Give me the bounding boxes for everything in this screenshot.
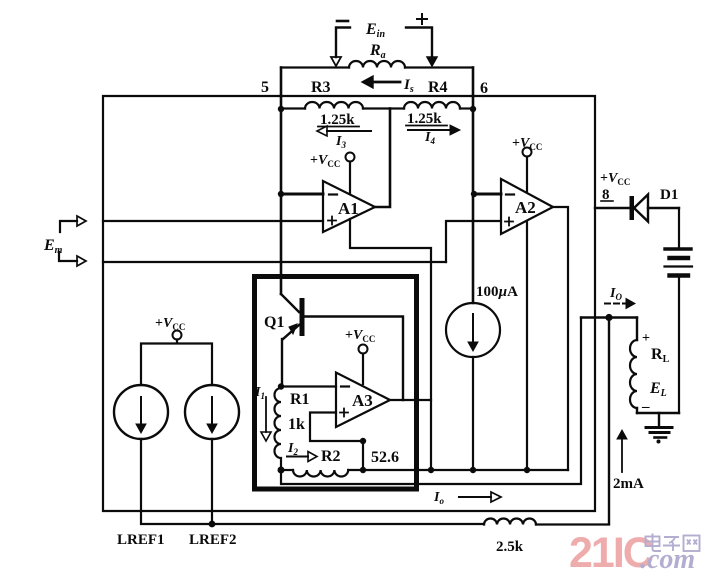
svg-text:EL: EL <box>649 380 667 399</box>
svg-text:.com: .com <box>640 544 695 575</box>
svg-text:I1: I1 <box>254 385 265 401</box>
wire Io node horizontal <box>581 316 637 318</box>
wire A1 inverting input from node 5 <box>281 193 323 196</box>
svg-text:Ra: Ra <box>369 42 386 61</box>
label minus RL <box>641 399 650 415</box>
power +Vcc reference sources <box>141 316 212 385</box>
node junction dot left coil <box>278 106 284 112</box>
ground symbol <box>646 413 672 444</box>
op-amp A1 <box>323 181 375 232</box>
svg-text:I4: I4 <box>424 130 435 146</box>
svg-text:D1: D1 <box>660 187 678 203</box>
resistor R3 coil 1.25k <box>281 102 390 108</box>
label RL <box>651 346 670 365</box>
label +Vcc pin 8 <box>600 171 630 203</box>
wire A1 noninverting rail from left border <box>103 220 323 222</box>
wire A3 output row <box>390 399 431 401</box>
power +Vcc A3 <box>345 328 375 384</box>
arrow Io bottom annotation <box>433 490 501 506</box>
arrow I2 current <box>287 441 317 462</box>
wire A2 inverting input from node 6 <box>474 193 501 196</box>
svg-text:Ein: Ein <box>365 21 385 40</box>
svg-text:+VCC: +VCC <box>600 171 630 187</box>
power +Vcc A1 <box>310 153 355 195</box>
wire R3R4 box left edge node 5 <box>280 68 283 97</box>
wire A1 output riser to coil junction <box>375 109 390 208</box>
svg-text:100µA: 100µA <box>476 284 518 300</box>
resistor R2 coil row <box>281 470 568 477</box>
arrow Is current <box>362 76 414 95</box>
node dot LREF2 stem <box>209 521 216 528</box>
wire A2 output down to R2 row <box>553 207 568 470</box>
svg-text:+VCC: +VCC <box>345 328 375 344</box>
node dot 100uA on R2 row <box>470 467 476 473</box>
svg-text:+VCC: +VCC <box>310 153 340 169</box>
current source IREF2 <box>185 385 239 439</box>
label 1k <box>288 416 305 433</box>
arrow 2mA annotation <box>613 430 644 492</box>
node dot feedback 52.6 top <box>360 438 366 444</box>
node dot A1 feedback on R2 row <box>428 467 434 473</box>
svg-text:–: – <box>641 399 650 415</box>
wire node 6 vertical <box>472 96 475 303</box>
terminal Ein plus <box>406 14 437 66</box>
svg-text:2.5k: 2.5k <box>496 539 524 555</box>
label 1.25k left with underline <box>318 112 359 128</box>
label Ra <box>369 42 386 61</box>
wire output row y484 to Io node <box>281 318 581 485</box>
svg-text:Q1: Q1 <box>264 314 284 331</box>
load branch RL <box>630 318 679 414</box>
wire outer frame <box>103 96 595 511</box>
wire R3R4 box right edge node 6 <box>472 68 475 97</box>
wire A2 noninverting input to Em lower rail <box>446 221 501 262</box>
transistor Q1 <box>264 294 305 386</box>
node dot R2 left <box>278 467 285 474</box>
op-amp A2 <box>501 179 553 234</box>
node dot R1 top <box>278 383 284 389</box>
svg-text:R1: R1 <box>290 391 310 408</box>
svg-text:A3: A3 <box>352 391 373 410</box>
svg-text:+VCC: +VCC <box>512 136 542 152</box>
svg-text:+: + <box>642 331 650 346</box>
diode D1 <box>595 187 679 222</box>
thick inner box <box>255 277 417 490</box>
label R1 <box>290 391 310 408</box>
op-amp A3 <box>336 373 390 428</box>
resistor R1 coil vertical <box>275 388 282 468</box>
arrow I3 current <box>317 126 371 150</box>
label LREF1 <box>117 532 165 548</box>
label R4 <box>428 79 448 96</box>
resistor 2.5k label <box>496 539 524 555</box>
arrow I4 current <box>408 125 460 146</box>
node dot A2 inverting <box>471 191 477 197</box>
node dot Io output <box>605 314 612 321</box>
label plus RL <box>642 331 650 346</box>
wire bottom row with 2.5k to Io node <box>141 439 609 525</box>
svg-text:A2: A2 <box>515 198 536 217</box>
label 52.6 <box>371 449 399 466</box>
label EL <box>649 380 667 399</box>
label Io dashed arrow <box>605 286 635 309</box>
battery cell <box>665 208 693 413</box>
svg-text:LREF2: LREF2 <box>189 532 237 548</box>
current source 100uA <box>446 284 518 470</box>
svg-text:R4: R4 <box>428 79 448 96</box>
arrow I1 current <box>254 385 271 441</box>
label node 6 <box>480 80 488 97</box>
label R2 <box>321 448 341 465</box>
wire node 5 vertical <box>280 96 283 294</box>
svg-text:IO: IO <box>609 286 622 302</box>
node dot R2 right <box>360 467 366 473</box>
label R3 <box>311 79 331 96</box>
label node 5 <box>261 79 269 96</box>
current source IREF1 <box>114 385 168 439</box>
svg-text:LREF1: LREF1 <box>117 532 165 548</box>
wire A3 inverting input row <box>281 385 336 387</box>
node dot A2 pin on R2 row <box>524 467 530 473</box>
svg-text:1k: 1k <box>288 416 305 433</box>
resistor Ra top coil <box>281 61 473 67</box>
wire Em lower rail <box>103 261 446 263</box>
node junction dot right coil <box>470 106 476 112</box>
label 1.25k right with underline <box>406 111 447 127</box>
power +Vcc A2 <box>512 136 542 192</box>
label LREF2 <box>189 532 237 548</box>
label Em with arrows <box>43 216 86 266</box>
svg-text:I2: I2 <box>287 441 298 457</box>
svg-text:5: 5 <box>261 79 269 96</box>
svg-text:2mA: 2mA <box>613 476 644 492</box>
svg-text:R2: R2 <box>321 448 341 465</box>
svg-text:52.6: 52.6 <box>371 449 399 466</box>
wire Q1 base to A3 output riser <box>305 317 404 401</box>
svg-text:Is: Is <box>403 77 414 95</box>
terminal Ein minus <box>331 21 350 66</box>
wire A2 bottom pin down to R2 row <box>526 221 528 470</box>
resistor R4 coil 1.25k <box>390 102 473 108</box>
svg-text:+VCC: +VCC <box>155 316 185 332</box>
wire A3 noninverting feedback <box>310 413 363 442</box>
svg-text:R3: R3 <box>311 79 331 96</box>
node dot A1 inverting <box>278 191 284 197</box>
label Ein <box>365 21 385 40</box>
svg-text:6: 6 <box>480 80 488 97</box>
svg-text:I3: I3 <box>335 134 346 150</box>
svg-text:Io: Io <box>433 490 444 506</box>
resistor 52.6 vertical wire <box>362 441 364 470</box>
svg-text:A1: A1 <box>338 199 359 218</box>
wire A1 bottom pin feedback to R2 row <box>350 219 431 470</box>
wire Io node down to bottom row <box>608 318 610 525</box>
watermark 21IC <box>569 529 700 577</box>
svg-text:RL: RL <box>651 346 670 365</box>
